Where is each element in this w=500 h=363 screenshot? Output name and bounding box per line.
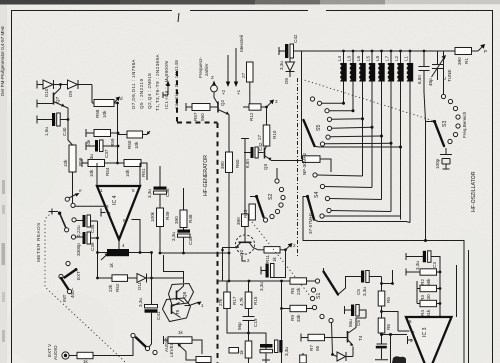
svg-text:T4: T4 (358, 335, 363, 341)
svg-text:C42: C42 (293, 34, 298, 43)
svg-text:390: 390 (174, 216, 179, 224)
svg-text:Q2: Q2 (220, 99, 225, 106)
capacitor column x281 bottom (281, 309, 283, 341)
resistor R12 (243, 106, 249, 108)
svg-text:31k: 31k (426, 309, 431, 317)
svg-text:22k: 22k (296, 287, 301, 295)
resistor 1k input (77, 352, 93, 358)
svg-text:C37: C37 (104, 149, 109, 158)
dark blob bottom left of IC3 (392, 356, 406, 363)
wire emitter to C40 row (65, 107, 69, 120)
stub wires from S2 contacts up (276, 168, 278, 179)
trimmer C TUNE (432, 51, 453, 82)
terminal arrow 2 (286, 245, 291, 250)
resistor bottom partial (196, 357, 211, 363)
op-amp IC3 (406, 317, 452, 363)
transistor can Q8 (169, 284, 194, 306)
switch S1 contacts (315, 279, 319, 283)
left margin caption smudges (0, 25, 5, 342)
node column x151 (150, 277, 153, 280)
resistor R60 390 vertical (226, 152, 233, 173)
inductor L7 (400, 51, 402, 63)
svg-text:C41: C41 (156, 311, 161, 320)
shield dash-dot line (297, 78, 299, 258)
left scan margin (0, 0, 7, 363)
dotted coupling diagonal top (301, 79, 434, 121)
svg-text:400~: 400~ (70, 287, 75, 298)
diode bottom with wire (332, 323, 333, 355)
resistor R58 10k (94, 100, 114, 107)
supply T bracket node (241, 139, 249, 215)
svg-text:3,3u: 3,3u (279, 61, 284, 70)
svg-text:EXT V: EXT V (47, 343, 52, 357)
capacitor C40 1,5u (37, 116, 52, 124)
svg-text:Q2,Q4 : 2N918: Q2,Q4 : 2N918 (147, 73, 152, 109)
svg-text:+1: +1 (236, 89, 241, 95)
winding ticks (340, 65, 408, 80)
svg-text:D7,D9,D11 : 1N758A: D7,D9,D11 : 1N758A (131, 58, 136, 109)
svg-text:33k: 33k (296, 314, 301, 322)
svg-text:S2: S2 (268, 194, 274, 200)
svg-text:R6: R6 (386, 324, 391, 330)
emitter column to R60 (228, 115, 230, 153)
svg-text:C39: C39 (90, 242, 95, 251)
svg-text:1k: 1k (178, 330, 184, 335)
svg-text:HF-GENERATOR: HF-GENERATOR (203, 155, 209, 196)
svg-text:R12: R12 (249, 112, 254, 121)
resistor R56 10k vertical on column x72.5 (69, 145, 76, 172)
meter circle node (211, 85, 218, 92)
svg-text:D10: D10 (44, 88, 49, 97)
capacitor C39 3300p (71, 235, 75, 239)
svg-text:3,3u: 3,3u (259, 282, 264, 291)
svg-text:10k: 10k (89, 169, 94, 177)
svg-text:R60: R60 (235, 159, 240, 168)
wiper S2 (255, 195, 258, 198)
inductor bank L1-L8 (337, 51, 413, 223)
svg-text:Q2: Q2 (239, 249, 244, 256)
boundary dashed HF generator (177, 71, 218, 363)
svg-text:AUDIO: AUDIO (53, 345, 58, 360)
resistor vertical bottom partial (302, 353, 304, 363)
svg-text:Der FM-Prufgenerator 0,4-57 MH: Der FM-Prufgenerator 0,4-57 MHz (0, 25, 5, 96)
svg-text:+2: +2 (221, 89, 226, 95)
svg-text:27: 27 (257, 134, 262, 140)
svg-text:R13: R13 (243, 209, 248, 218)
resistor R54 row y163 (82, 162, 88, 164)
terminal arrow 1 (191, 303, 199, 306)
wire corner down to R58 row (91, 85, 93, 104)
capacitor C5 3,3u (361, 271, 364, 283)
capacitor 56p (248, 309, 250, 317)
wiper S5 (304, 120, 315, 146)
op-amp IC4 (97, 186, 140, 240)
capacitor bottom electrolytic (377, 343, 388, 345)
svg-text:L1: L1 (404, 55, 409, 61)
resistor R51 row y163 (124, 160, 141, 167)
supply arrow +2 (227, 55, 229, 82)
svg-text:3,3u: 3,3u (171, 232, 176, 241)
capacitor C42 3,3u electrolytic at bus head (279, 47, 285, 55)
svg-text:IC 3: IC 3 (422, 327, 428, 337)
svg-text:Freq.Bereich: Freq.Bereich (462, 111, 467, 138)
resistor R52 22k (98, 277, 113, 279)
svg-text:3: 3 (108, 211, 111, 216)
svg-text:560: 560 (200, 113, 205, 121)
capacitor C41 3,3u (series in column) (145, 305, 158, 308)
terminal d arrow (114, 99, 118, 104)
svg-text:R1: R1 (464, 58, 469, 64)
terminal arrow Z with meter circle (213, 84, 215, 92)
capacitor C6 56u (345, 306, 352, 314)
svg-text:C42: C42 (258, 142, 263, 151)
transistor can T5 (163, 298, 191, 322)
case pin bracket (242, 256, 246, 261)
resistor R13 vertical left (249, 204, 255, 220)
switch S7a lever top (66, 261, 70, 265)
svg-text:R10: R10 (272, 130, 277, 139)
svg-text:C40: C40 (62, 127, 67, 136)
svg-text:d: d (120, 96, 123, 101)
transistor T4 (347, 331, 349, 343)
svg-text:2: 2 (247, 258, 250, 263)
svg-text:TUNE: TUNE (447, 69, 452, 82)
svg-text:S5: S5 (316, 125, 322, 131)
svg-text:R49: R49 (165, 211, 170, 220)
resistor 27 vertical top (247, 62, 254, 82)
wiper S3 (433, 120, 436, 123)
svg-text:T5: T5 (175, 309, 180, 315)
svg-text:D11: D11 (137, 281, 142, 290)
svg-text:L5: L5 (366, 55, 371, 61)
svg-text:3: 3 (275, 99, 278, 104)
terminal arrow 3 (267, 102, 273, 108)
svg-text:S3: S3 (442, 121, 448, 127)
rotary switch S3 Freq.Bereich (426, 51, 468, 241)
svg-text:Q3: Q3 (263, 163, 268, 170)
inductor L2 (352, 51, 354, 63)
svg-text:3,3u: 3,3u (415, 261, 420, 270)
svg-text:T1,T3,T6-T9 : 2N2369A: T1,T3,T6-T9 : 2N2369A (155, 54, 160, 111)
svg-text:METER READS: METER READS (36, 222, 41, 262)
wire row y278.5 from D11 node (152, 277, 184, 279)
svg-text:LEVEL: LEVEL (169, 342, 174, 357)
svg-text:1k: 1k (109, 262, 114, 268)
resistor R48 390 vertical (183, 188, 185, 210)
resistor R49 100k vertical (159, 194, 161, 208)
resistor R16 27k vertical (226, 281, 228, 292)
transistor T1 in dashed circle (235, 235, 254, 254)
svg-text:R54: R54 (105, 167, 110, 176)
svg-text:6: 6 (123, 218, 126, 223)
capacitor C38 0,22u (72, 218, 76, 222)
svg-text:L8: L8 (375, 55, 380, 61)
svg-text:R5: R5 (386, 297, 391, 303)
svg-text:390: 390 (236, 217, 241, 225)
svg-text:R50: R50 (127, 140, 132, 149)
oscillator box wire (303, 197, 464, 363)
svg-text:37-57MHz: 37-57MHz (308, 212, 313, 234)
svg-text:3,3u: 3,3u (362, 287, 367, 296)
svg-text:R2: R2 (420, 279, 425, 285)
svg-text:5: 5 (132, 188, 135, 193)
svg-text:R15: R15 (253, 296, 258, 305)
svg-text:390: 390 (220, 161, 225, 169)
pin3 input T bracket (101, 209, 106, 217)
svg-text:C5: C5 (356, 289, 361, 295)
wire bus top y50.5 (302, 50, 444, 52)
dotted coupling to S1 (252, 222, 311, 297)
capacitor 3,3u with ground bracket (274, 250, 286, 278)
svg-text:2: 2 (293, 243, 296, 248)
trimmer cap below S3 (445, 148, 447, 154)
svg-text:D8: D8 (284, 78, 289, 84)
svg-text:Messteil: Messteil (239, 35, 244, 52)
wiper S4 (306, 195, 309, 198)
svg-text:R11: R11 (265, 254, 270, 263)
svg-text:R58: R58 (95, 109, 100, 118)
resistor 390 vertical (T1 collector) (242, 214, 249, 227)
wiper S1 (324, 272, 339, 295)
svg-text:HF-OSZILLATOR: HF-OSZILLATOR (471, 171, 477, 212)
svg-text:R48: R48 (188, 214, 193, 223)
switch contacts audio (131, 333, 135, 337)
diode D9 (61, 84, 68, 86)
top dark bar (0, 0, 500, 4)
svg-text:zahler: zahler (204, 63, 209, 76)
emitter wire left to column (223, 248, 233, 254)
svg-text:L7: L7 (385, 55, 390, 61)
svg-text:Z: Z (211, 75, 214, 80)
small resistor box (229, 348, 239, 354)
resistor R57 560 (186, 103, 192, 111)
dotted meter line (45, 212, 126, 363)
inductor L3 (362, 51, 364, 63)
svg-text:390: 390 (457, 57, 462, 65)
transistor Q2 (217, 102, 219, 113)
svg-text:L6: L6 (356, 55, 361, 61)
resistor R2 56k (406, 269, 420, 276)
svg-text:10k: 10k (63, 159, 68, 167)
svg-text:R4: R4 (420, 310, 425, 316)
resistor box below S5 (302, 124, 303, 159)
svg-text:L3: L3 (347, 55, 352, 61)
S4 contact lines to nested corners (317, 175, 363, 176)
svg-text:56u: 56u (348, 319, 353, 327)
diode D11 (137, 274, 146, 283)
svg-text:3300p: 3300p (76, 243, 81, 256)
node column x68->x72.5 (67, 118, 70, 121)
resistor R9 33k (281, 281, 283, 309)
resistor R10 27 vertical (266, 107, 268, 125)
svg-text:1: 1 (201, 303, 204, 308)
inductor L6 (390, 51, 392, 63)
resistor R15 4,7k vertical (248, 281, 250, 292)
svg-text:0,22u: 0,22u (76, 225, 81, 237)
svg-text:R52: R52 (115, 283, 120, 292)
svg-text:R17: R17 (232, 296, 237, 305)
svg-text:NF-30MHz: NF-30MHz (302, 152, 307, 175)
svg-text:10k: 10k (125, 169, 130, 177)
svg-text:1k: 1k (239, 349, 244, 355)
capacitor C36 3,3u (159, 166, 161, 187)
svg-text:4,7k: 4,7k (239, 297, 244, 306)
svg-text:22k: 22k (108, 284, 113, 292)
svg-text:5: 5 (409, 319, 412, 324)
node A junction (59, 83, 62, 86)
svg-text:S1: S1 (316, 293, 322, 299)
svg-text:10k: 10k (134, 141, 139, 149)
capacitor C45 6,8n (417, 51, 433, 122)
supply arrow +1 (235, 48, 237, 82)
switch S7b lever (59, 274, 63, 278)
svg-text:1,5u: 1,5u (44, 127, 49, 136)
svg-text:3,3u: 3,3u (147, 189, 152, 198)
zener diode D8 (286, 62, 295, 71)
svg-text:R51: R51 (141, 168, 146, 177)
svg-text:1k: 1k (83, 359, 89, 363)
inductor L1 (343, 51, 345, 63)
resistor chain left of IC3 (381, 277, 383, 292)
inductor L5 (381, 51, 383, 63)
svg-text:56: 56 (315, 345, 320, 351)
svg-text:10k: 10k (102, 110, 107, 118)
switch contacts to pin 2 (65, 197, 69, 201)
svg-text:R7: R7 (309, 345, 314, 351)
potentiometer R53 (solid black) (107, 249, 129, 256)
resistor R6 vertical (378, 318, 385, 333)
resistor R18 1k vertical (248, 333, 250, 341)
diode D10 (43, 80, 53, 89)
switch S2b lever (49, 209, 59, 215)
node column x97 (97, 221, 99, 278)
svg-text:1: 1 (100, 188, 103, 193)
resistor R59 10k row (86, 129, 94, 137)
svg-text:C19: C19 (253, 318, 258, 327)
svg-text:D9: D9 (68, 91, 73, 97)
audio level pot (164, 336, 169, 344)
svg-text:Frequenz-: Frequenz- (198, 57, 203, 78)
svg-text:56p: 56p (237, 322, 242, 330)
frame gap tick (178, 13, 179, 22)
junction dots on bus (342, 50, 345, 53)
svg-text:3,3u: 3,3u (138, 298, 143, 307)
capacitor C3 3,3u (406, 253, 423, 260)
capacitor C35 3,3u (183, 228, 185, 230)
drop from R54/R51 row to IC4 corners (96, 163, 98, 186)
svg-text:EXT: EXT (76, 271, 81, 280)
wire row y271.5 (164, 255, 184, 283)
pot wiper arrow (101, 255, 107, 261)
resistor R11 1k (258, 249, 264, 251)
svg-text:2: 2 (106, 204, 109, 209)
svg-text:56k: 56k (426, 278, 431, 286)
input stubs (398, 330, 410, 332)
transistor Q7 (37, 100, 53, 108)
terminal arrow Y (163, 84, 168, 98)
svg-text:R9: R9 (290, 315, 295, 321)
transistor Q3 (264, 148, 266, 159)
resistor R50 row y134 (127, 131, 143, 138)
svg-text:R57: R57 (193, 112, 198, 121)
wire row y253 from C41-column area to column x229 (160, 252, 229, 254)
svg-text:INT: INT (62, 294, 67, 302)
svg-text:P: P (484, 49, 487, 54)
S5 contact stub wires to coil columns (322, 102, 344, 104)
svg-text:4: 4 (122, 243, 125, 248)
capacitor C42b 6,8n (244, 152, 251, 154)
wire pin6 feedback (132, 220, 141, 253)
resistor R5 vertical (378, 291, 385, 306)
svg-text:Q7: Q7 (55, 96, 60, 103)
svg-text:IC 4: IC 4 (112, 195, 118, 205)
svg-text:Q5 : 2N2219: Q5 : 2N2219 (139, 79, 144, 109)
inductor L4 (371, 51, 373, 63)
scan blotches (5, 290, 115, 363)
resistor R8 22k on bus (290, 278, 307, 284)
connector jack (62, 352, 69, 359)
wire pin4 to pot (118, 240, 120, 250)
svg-text:C6: C6 (356, 320, 361, 326)
svg-text:48p: 48p (428, 78, 433, 86)
svg-text:R8: R8 (290, 288, 295, 294)
svg-text:1k: 1k (272, 256, 277, 262)
svg-text:L2: L2 (394, 55, 399, 61)
svg-text:C3: C3 (432, 262, 437, 268)
svg-text:6,8n: 6,8n (417, 75, 422, 84)
resistor R1 390 at bus end (455, 48, 472, 55)
switch S4 contacts (313, 173, 317, 177)
node terminal left of diode row (37, 81, 43, 89)
svg-text:100p: 100p (435, 158, 440, 169)
switch S5 contacts (310, 97, 314, 101)
resistor R7 56 base (301, 334, 308, 342)
svg-text:S4: S4 (314, 192, 320, 198)
svg-text:Q8: Q8 (182, 291, 187, 298)
bottom bus y281 (222, 253, 224, 281)
column x117.5 (117, 103, 119, 163)
svg-text:27: 27 (241, 72, 246, 78)
svg-text:3,3u: 3,3u (284, 347, 289, 356)
svg-text:100k: 100k (150, 211, 155, 222)
svg-text:27k: 27k (218, 298, 223, 306)
capacitor C37 3,3u (86, 142, 95, 150)
inductor L8 (409, 51, 411, 63)
svg-text:C35: C35 (188, 236, 193, 245)
svg-text:L4: L4 (337, 55, 342, 61)
resistor R14 stack (417, 289, 420, 304)
resistor R13b stack (417, 281, 420, 289)
wire wiper to C5 (338, 277, 361, 295)
terminal arrow P (478, 46, 483, 51)
capacitor 10n black (260, 344, 273, 348)
svg-text:2: 2 (412, 330, 415, 335)
svg-text:e: e (79, 188, 82, 193)
svg-text:6,8n: 6,8n (245, 159, 250, 168)
svg-text:Y: Y (166, 75, 169, 80)
svg-text:C36: C36 (165, 188, 170, 197)
